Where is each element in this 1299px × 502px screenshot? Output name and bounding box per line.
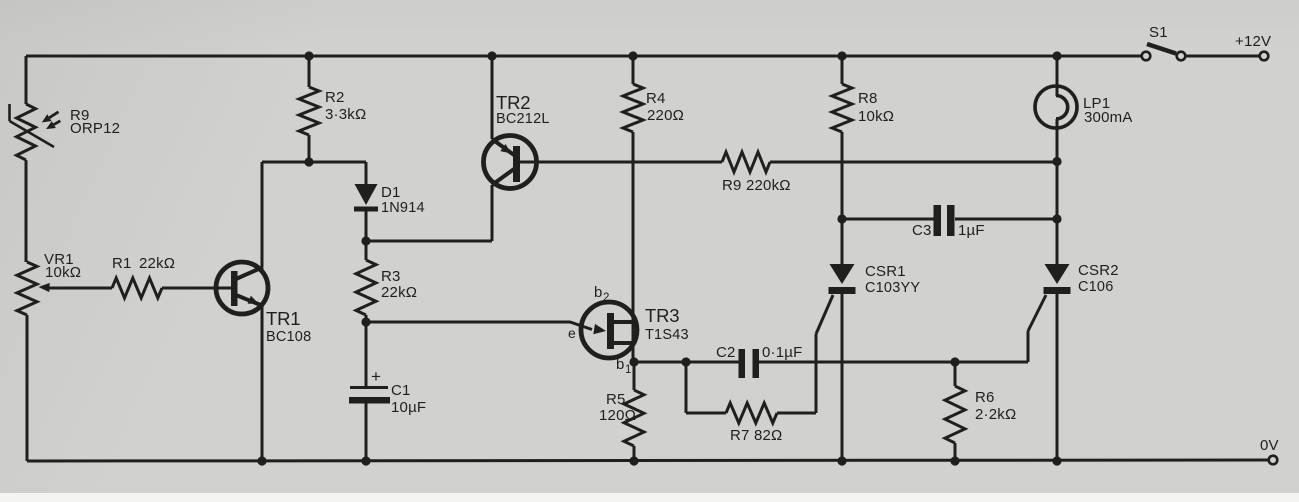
svg-text:TR2: TR2 xyxy=(496,92,530,113)
svg-text:C106: C106 xyxy=(1078,279,1113,295)
svg-text:b: b xyxy=(594,284,602,301)
svg-text:TR1: TR1 xyxy=(266,308,300,329)
svg-text:1µF: 1µF xyxy=(958,222,985,239)
svg-text:0·1µF: 0·1µF xyxy=(762,344,803,361)
svg-text:2: 2 xyxy=(603,292,609,304)
svg-text:22kΩ: 22kΩ xyxy=(139,255,175,272)
svg-text:+12V: +12V xyxy=(1235,33,1271,50)
svg-text:S1: S1 xyxy=(1149,24,1168,41)
svg-text:CSR2: CSR2 xyxy=(1078,262,1119,279)
svg-text:10µF: 10µF xyxy=(391,399,426,416)
svg-text:0V: 0V xyxy=(1260,437,1279,454)
svg-text:R6: R6 xyxy=(975,389,995,406)
svg-text:ORP12: ORP12 xyxy=(70,120,120,137)
svg-text:10kΩ: 10kΩ xyxy=(858,108,894,125)
svg-text:120Ω: 120Ω xyxy=(599,407,636,424)
svg-text:C103YY: C103YY xyxy=(865,280,920,296)
svg-text:T1S43: T1S43 xyxy=(645,327,689,343)
svg-text:C1: C1 xyxy=(391,382,411,399)
svg-text:C3: C3 xyxy=(912,222,932,239)
svg-text:R7 82Ω: R7 82Ω xyxy=(730,427,782,444)
svg-text:R5: R5 xyxy=(606,391,626,408)
svg-text:300mA: 300mA xyxy=(1084,109,1133,126)
svg-text:e: e xyxy=(568,325,576,341)
svg-text:R3: R3 xyxy=(381,268,401,285)
svg-text:BC212L: BC212L xyxy=(496,111,550,127)
svg-text:R1: R1 xyxy=(112,255,132,272)
svg-text:R8: R8 xyxy=(858,90,878,107)
svg-text:1: 1 xyxy=(625,364,631,376)
svg-text:+: + xyxy=(371,367,381,386)
svg-text:BC108: BC108 xyxy=(266,329,311,345)
svg-text:1N914: 1N914 xyxy=(381,200,425,216)
svg-text:10kΩ: 10kΩ xyxy=(45,264,81,281)
svg-text:2·2kΩ: 2·2kΩ xyxy=(975,406,1016,423)
svg-text:R4: R4 xyxy=(646,90,666,107)
svg-text:220Ω: 220Ω xyxy=(647,107,684,124)
svg-text:R2: R2 xyxy=(325,89,345,106)
svg-text:TR3: TR3 xyxy=(645,305,679,326)
svg-text:3·3kΩ: 3·3kΩ xyxy=(325,106,366,123)
svg-text:b: b xyxy=(616,356,624,373)
svg-text:D1: D1 xyxy=(381,184,401,201)
svg-text:CSR1: CSR1 xyxy=(865,263,906,280)
svg-text:C2: C2 xyxy=(716,344,736,361)
svg-text:R9 220kΩ: R9 220kΩ xyxy=(722,177,791,194)
svg-text:22kΩ: 22kΩ xyxy=(381,284,417,301)
